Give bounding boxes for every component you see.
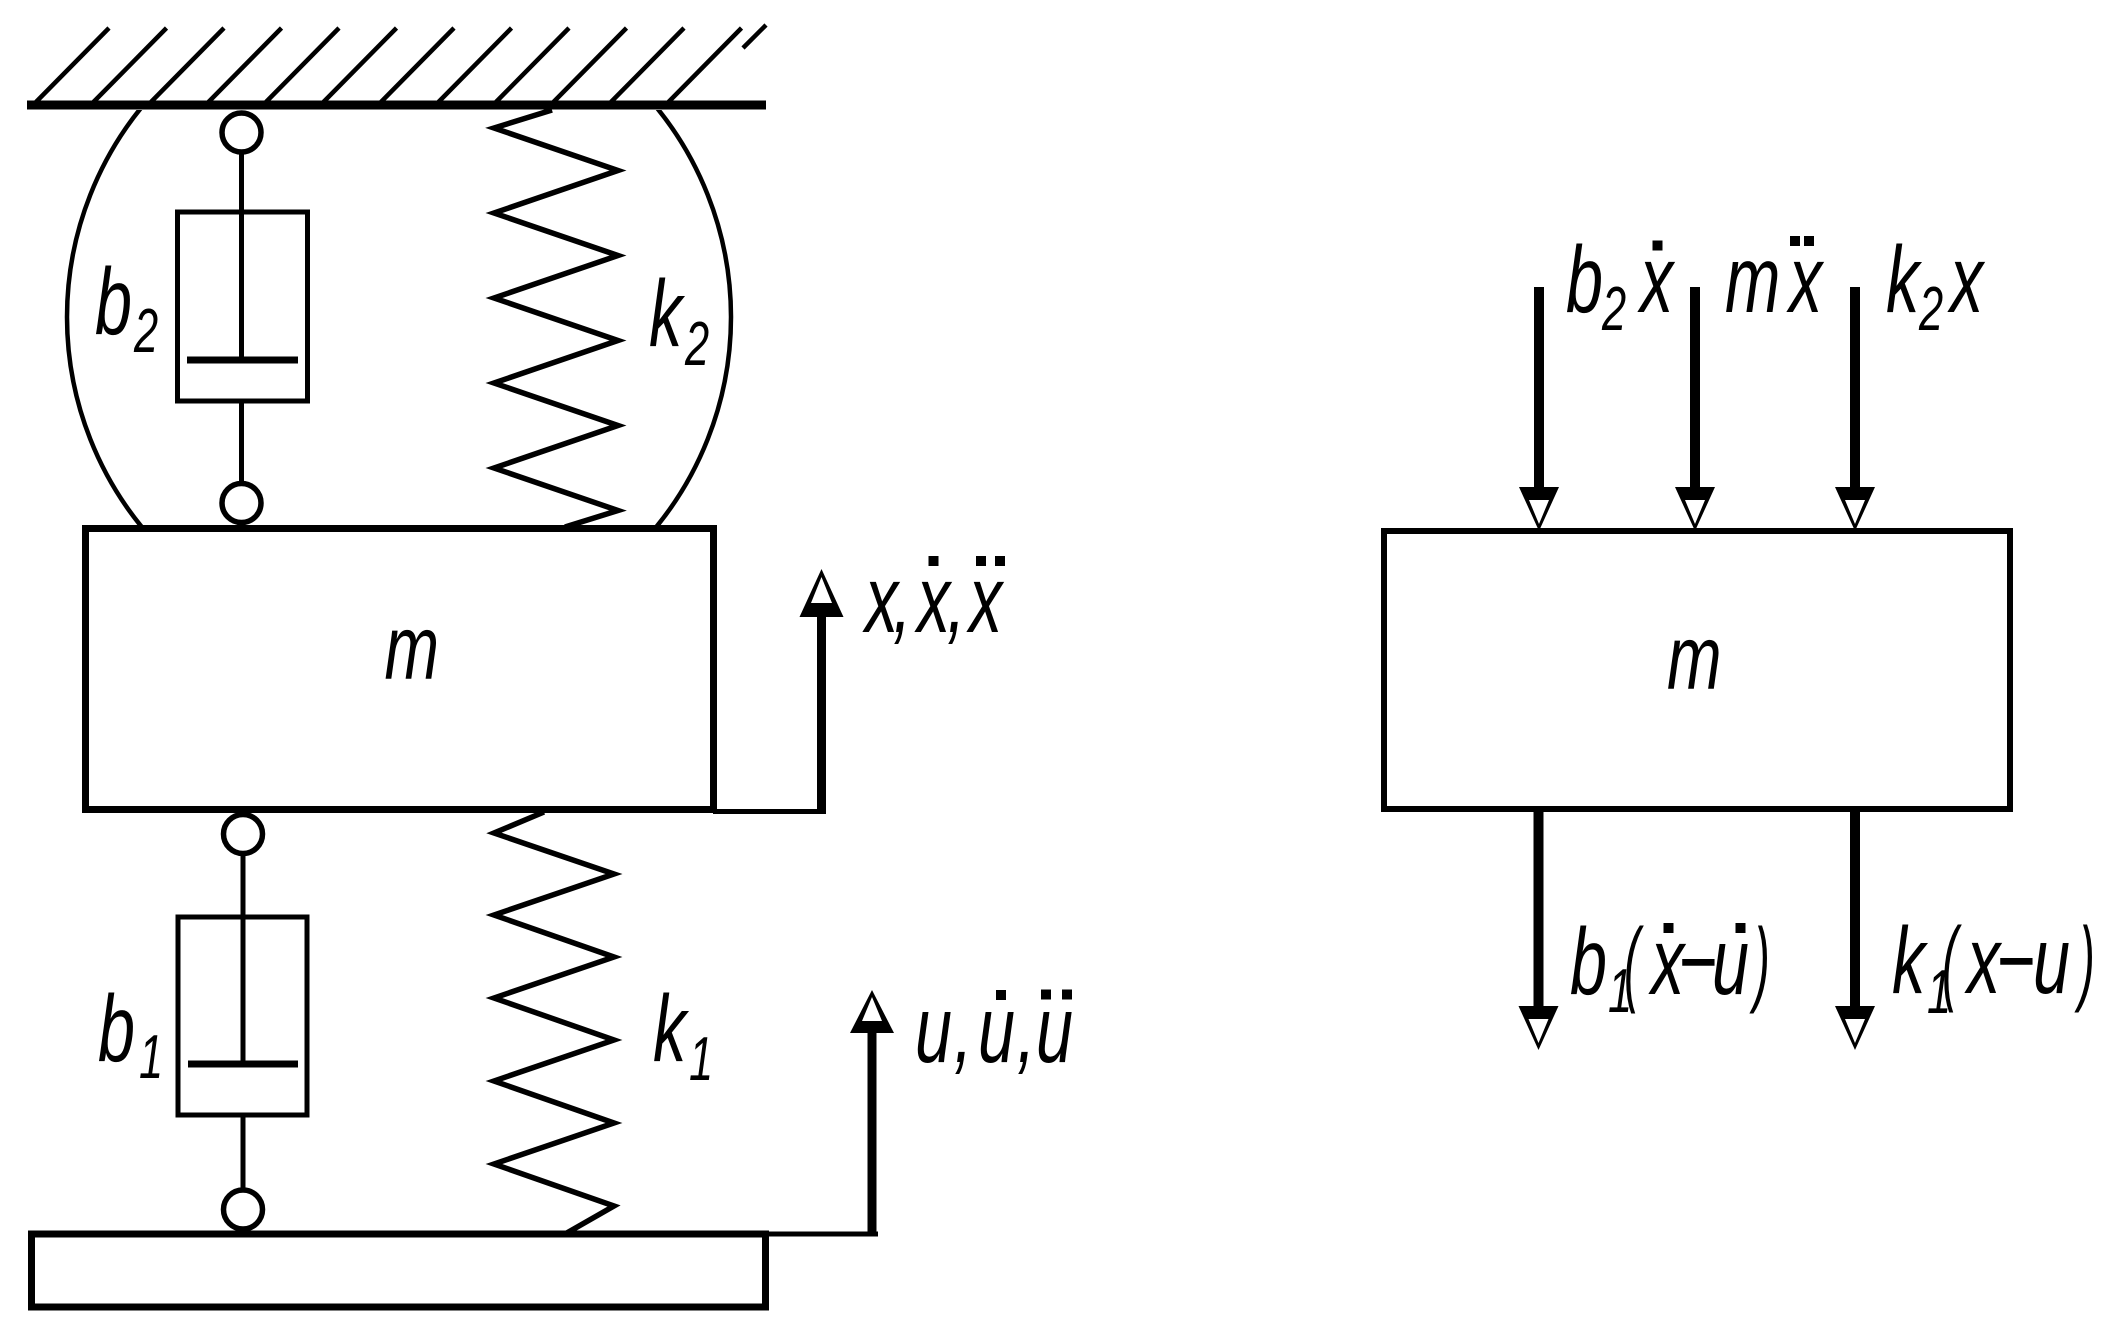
svg-text:k: k (1892, 908, 1928, 1013)
force arrow b1(xdot-udot) (bottom) (1534, 806, 1544, 1010)
force arrow k2*x (top) (1850, 287, 1860, 491)
svg-text:b: b (95, 249, 132, 354)
force arrow b2*xdot (top) (1534, 287, 1544, 491)
svg-text:u: u (2033, 908, 2070, 1013)
wire: extension from mass bottom to x arrow (713, 809, 826, 814)
wire: rod from mass pin into damper b1 (241, 852, 246, 1066)
svg-text:k: k (649, 261, 685, 366)
svg-text:2: 2 (1601, 276, 1626, 344)
FBD mass m block (1384, 531, 2010, 809)
svg-text:,: , (954, 977, 972, 1082)
base (ground plate) (32, 1234, 766, 1307)
svg-text:−: − (1678, 909, 1717, 1014)
spring k2 (494, 110, 618, 527)
svg-text:2: 2 (684, 311, 709, 379)
svg-text:2: 2 (1918, 276, 1943, 344)
force arrow m*xddot (top) (1690, 287, 1700, 491)
svg-text:k: k (653, 976, 689, 1081)
svg-text:−: − (1996, 908, 2035, 1013)
ceiling fixed support line (27, 101, 766, 110)
wire: rod from damper b2 down to mass pin (239, 401, 244, 486)
damper b2 piston plate (187, 357, 298, 364)
svg-text:m: m (1725, 227, 1780, 332)
x response arrowhead (800, 569, 844, 617)
svg-text:b: b (1570, 909, 1607, 1014)
mass m block (86, 529, 714, 810)
svg-text:x: x (1947, 227, 1986, 332)
svg-text:,: , (947, 547, 965, 652)
svg-text:b: b (98, 976, 135, 1081)
lens outline enclosing damper b2 and spring k2 (67, 0, 731, 649)
svg-text:1: 1 (689, 1026, 713, 1094)
pin joint on top of mass (222, 484, 261, 523)
u excitation arrowhead (850, 990, 894, 1033)
damper b1 piston plate (188, 1061, 298, 1068)
pin joint on base (224, 1190, 263, 1229)
wire: rod from damper b1 down to base pin (241, 1115, 246, 1192)
pin joint at ceiling (222, 113, 261, 152)
damper b1 cylinder (178, 917, 307, 1115)
svg-text:u: u (915, 977, 952, 1082)
svg-text:b: b (1566, 227, 1603, 332)
svg-text:m: m (1667, 606, 1722, 708)
x response arrow shaft (817, 614, 826, 812)
wire: rod from ceiling pin into damper b2 (239, 150, 244, 362)
ceiling hatch marks (36, 25, 766, 102)
wire: extension from base top to u arrow (762, 1232, 878, 1237)
svg-text:,: , (893, 547, 911, 652)
svg-text:2: 2 (133, 298, 158, 366)
damper b2 cylinder (178, 212, 308, 401)
spring k1 (494, 812, 614, 1234)
pin joint under mass (224, 815, 263, 854)
svg-text:,: , (1017, 977, 1035, 1082)
svg-text:k: k (1886, 227, 1922, 332)
u excitation arrow shaft (868, 1030, 877, 1234)
svg-text:m: m (385, 596, 440, 698)
svg-text:1: 1 (139, 1024, 163, 1092)
force arrow k1(x-u) (bottom) (1850, 806, 1860, 1010)
